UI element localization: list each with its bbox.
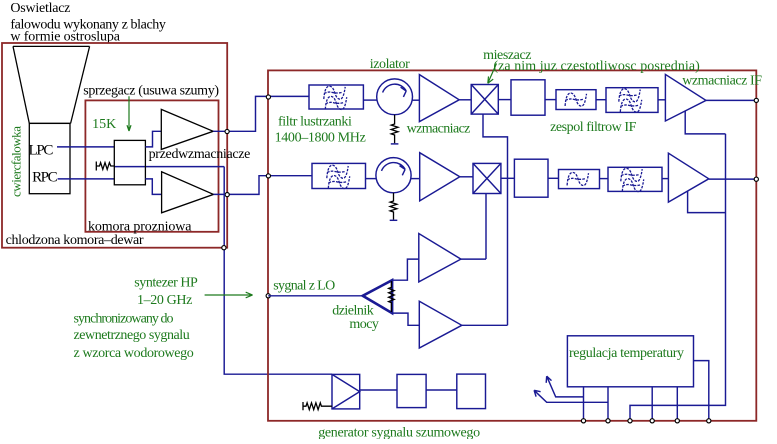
wire: mixer2 to box2 [501, 177, 515, 179]
preamp 2 (RPC) [162, 172, 214, 213]
box: komora prozniowa [85, 100, 218, 231]
wire: FB2 to IF amp2 [662, 178, 668, 180]
resistor: noise source bias [303, 402, 332, 410]
wire: mixer1 LO path down [483, 114, 508, 325]
noise source amp box [332, 374, 360, 409]
resistor: coupler termination [96, 162, 114, 171]
svg-text:syntezer HP: syntezer HP [134, 276, 198, 291]
svg-text:przedwzmacniacze: przedwzmacniacze [149, 147, 251, 162]
wire: noise injection through coupler [114, 166, 224, 168]
wire: IF amp2 output [709, 178, 757, 180]
preamp 1 (LPC) [161, 109, 213, 149]
svg-text:Oswietlacz: Oswietlacz [10, 1, 70, 16]
wire: temp box lead 4 [676, 387, 678, 421]
LO amplifier lower [419, 301, 462, 348]
box: chlodzona komora-dewar [2, 43, 227, 248]
power divider (dzielnik mocy) [363, 280, 392, 313]
svg-text:zespol filtrow IF: zespol filtrow IF [550, 120, 637, 135]
svg-text:15K: 15K [92, 117, 116, 132]
wire: IF amp2 feedback [688, 191, 726, 212]
amplifier A2 row2 [420, 153, 460, 201]
ground tick: isolator1 [391, 143, 399, 145]
box: row2 IF stage [514, 159, 548, 197]
svg-text:zewnetrznego sygnalu: zewnetrznego sygnalu [74, 328, 190, 343]
IF amplifier row1 [665, 74, 706, 121]
node: bottom 5 [675, 419, 679, 423]
resistor: divider [389, 281, 395, 312]
node: row1 input [266, 95, 270, 99]
wire: filter2 to isolator2 [366, 178, 377, 180]
wire: mixer2 LO riser [485, 194, 487, 260]
wire: box1 to IF filter A1 [545, 99, 556, 101]
wire: temp box right lead [694, 361, 709, 421]
node: IF output 1 [754, 98, 758, 102]
filter F2 row2 [312, 163, 366, 188]
wire: noise line down to generator [224, 167, 332, 375]
wire: FA2 to FB2 [600, 178, 609, 180]
filter FA2 row2 [559, 170, 600, 189]
wire: temp box lead 1 [583, 387, 585, 421]
wire: IF bias line [630, 134, 726, 421]
arrow: sensor upper [546, 376, 583, 397]
svg-text:filtr lustrzanki: filtr lustrzanki [278, 114, 352, 129]
node: noise line on dewar bottom [222, 246, 226, 250]
wire: LPC to coupler [57, 146, 114, 148]
box: row1 IF stage [511, 80, 545, 115]
wire: stage2 to stage3 [426, 389, 457, 391]
node: preamp2 output on dewar wall [225, 193, 229, 197]
svg-text:cwiercfalowka: cwiercfalowka [9, 126, 24, 197]
box: noise stage 2 [397, 374, 426, 407]
node: IF output 2 [754, 177, 758, 181]
wire: RPC to coupler [58, 178, 115, 180]
node: LO input [266, 294, 270, 298]
arrow: syntezer to LO input [205, 292, 253, 298]
node: bottom 6 [707, 419, 711, 423]
filter FB2 row2 [608, 167, 662, 191]
node: preamp1 output on dewar wall [225, 129, 229, 133]
wire: mixer1 to box1 [498, 99, 511, 101]
resistor: isolator2 termination [390, 193, 397, 220]
wire: LO input to divider [268, 295, 363, 297]
svg-text:(za nim juz czestotliwosc posr: (za nim juz czestotliwosc posrednia) [493, 59, 700, 74]
isolator U1 row1 [377, 79, 413, 115]
svg-text:mocy: mocy [349, 317, 379, 332]
coupler sprzegacz box [114, 140, 145, 184]
svg-text:sprzegacz (usuwa szumy): sprzegacz (usuwa szumy) [83, 84, 219, 99]
LO amplifier upper [419, 234, 461, 282]
wire: box2 to FA2 [548, 177, 559, 179]
wire: LO amp2 to mixer1 riser [462, 324, 508, 326]
arrow: mieszacz pointer [488, 64, 497, 84]
wire: FB1 to IF amp1 [658, 99, 665, 101]
svg-text:chlodzona komora–dewar: chlodzona komora–dewar [6, 233, 144, 248]
svg-text:1–20 GHz: 1–20 GHz [137, 293, 192, 308]
filter F1 row1 (filtr lustrzanki) [309, 85, 363, 109]
svg-text:sygnal z LO: sygnal z LO [273, 278, 335, 293]
arrow: sprzegacz pointer [127, 96, 131, 131]
mixer M2 row2 [473, 163, 501, 193]
wire: isolator1 to amp1 [413, 99, 420, 101]
node: bottom 3 [628, 419, 632, 423]
filter FB1 row1 [606, 88, 658, 113]
wire: preamp2 output to row2 filter [214, 176, 313, 195]
svg-text:RPC: RPC [32, 169, 58, 185]
svg-text:synchronizowany do: synchronizowany do [74, 311, 174, 326]
box: regulacja temperatury [567, 336, 693, 387]
svg-text:komora prozniowa: komora prozniowa [88, 219, 192, 234]
node: bottom 2 [606, 419, 610, 423]
svg-text:1400–1800 MHz: 1400–1800 MHz [275, 131, 366, 146]
svg-text:izolator: izolator [370, 57, 410, 72]
svg-text:wzmacniacz: wzmacniacz [407, 121, 471, 136]
isolator U2 row2 [376, 158, 411, 193]
wire: filter1 to isolator1 [363, 99, 377, 101]
svg-text:generator sygnalu szumowego: generator sygnalu szumowego [318, 426, 480, 440]
wire: divider bottom to LO amp2 [392, 313, 419, 325]
box: noise stage 3 [457, 374, 486, 409]
wire: isolator2 to amp2 [411, 178, 420, 180]
svg-text:regulacja temperatury: regulacja temperatury [569, 346, 684, 361]
mixer M1 row1 [471, 85, 498, 115]
IF amplifier row2 [668, 153, 708, 202]
node: bottom 1 [581, 419, 585, 423]
wire: amp1 to mixer1 [459, 99, 471, 101]
wire: coupler to preamp 1 [145, 131, 161, 147]
wire: IF amp1 feedback [685, 111, 725, 134]
wire: divider top to LO amp1 [392, 259, 419, 280]
wire: noise amp to stage2 [360, 389, 397, 391]
arrow: sensor lower [534, 390, 608, 402]
wire: temp box lead 2 [607, 387, 609, 421]
waveguide body (cwiercfalowka) [29, 123, 70, 193]
wire: IF amp1 output [706, 99, 756, 101]
wire: preamp1 output to row1 filter [213, 96, 309, 131]
svg-text:z wzorca wodorowego: z wzorca wodorowego [74, 346, 194, 361]
wire: FA1 to FB1 [596, 99, 606, 101]
svg-text:wzmacniacz IF: wzmacniacz IF [682, 73, 762, 88]
wire: LO amp1 to mixer2 [461, 258, 486, 260]
resistor: isolator1 termination [391, 115, 398, 144]
wire: amp2 to mixer2 [460, 176, 473, 178]
horn antenna (oswietlacz) [13, 46, 90, 123]
node: bottom 4 [650, 419, 654, 423]
filter FA1 row1 [556, 90, 596, 110]
wire: coupler to preamp 2 [145, 179, 161, 195]
amplifier A1 row1 [419, 75, 459, 122]
box: main receiver enclosure [268, 70, 756, 420]
ground tick: isolator2 [390, 219, 398, 221]
node: row2 input [266, 174, 270, 178]
svg-text:LPC: LPC [29, 142, 54, 158]
wire: temp box lead 3 [651, 387, 653, 421]
